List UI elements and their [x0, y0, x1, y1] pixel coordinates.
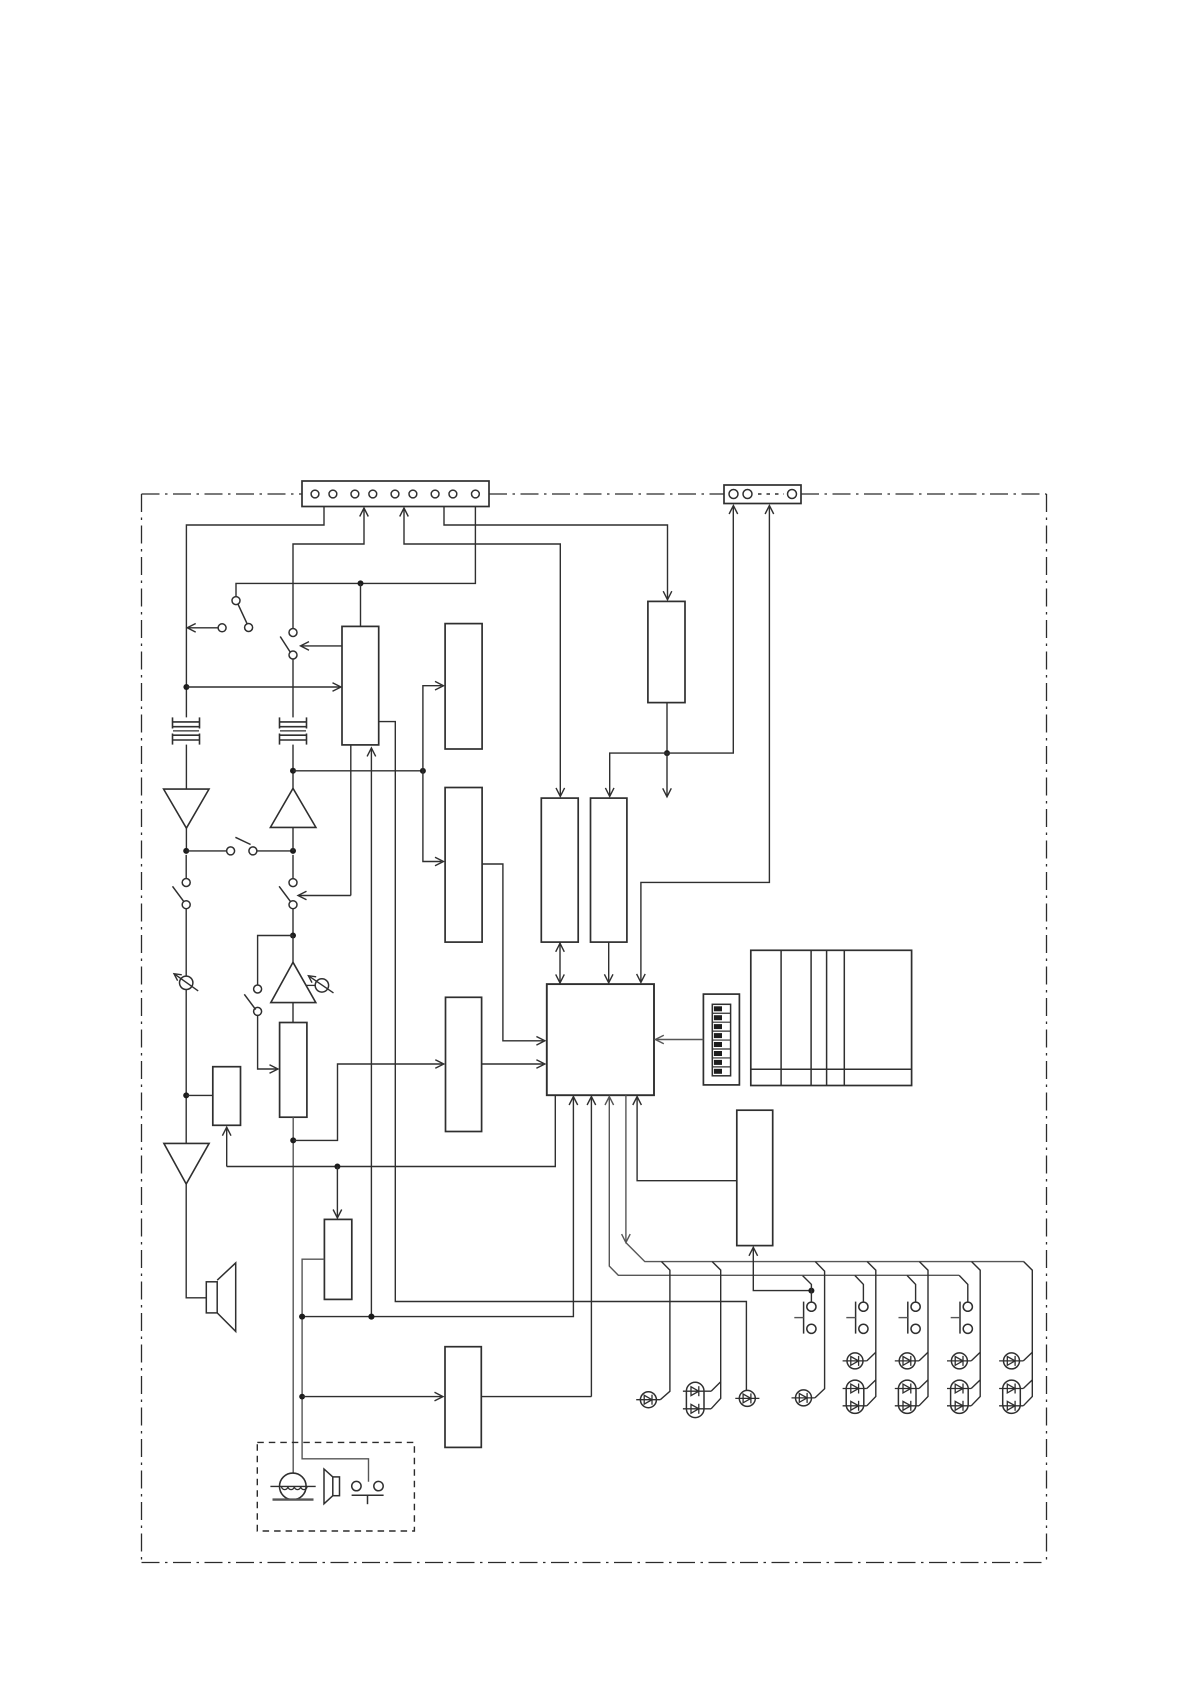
block A: [445, 624, 482, 749]
switch S1: [187, 597, 252, 633]
wire node to block M4: [333, 1167, 342, 1219]
bus lower: [605, 1097, 959, 1276]
motor M: [270, 1473, 315, 1500]
bus upper: [622, 1095, 1024, 1261]
microprocessor U1: [547, 984, 654, 1095]
wire A2 to node B: [292, 827, 294, 851]
wire bus to block K1: [367, 748, 376, 1320]
gain control VR2: [306, 976, 333, 993]
block M2: [280, 1023, 307, 1118]
switch S4: [173, 855, 191, 909]
block M3: [445, 1347, 481, 1448]
wire block R to U1: [633, 1097, 737, 1181]
block D: [591, 798, 627, 942]
wire node to blocks A/B: [293, 768, 426, 774]
wire to block B input: [423, 771, 444, 866]
push switch PB5: [352, 1481, 384, 1504]
LED D1: [636, 1392, 660, 1408]
DIP switch SW1: [703, 994, 739, 1085]
block B: [445, 788, 482, 943]
keypad unit: [751, 950, 912, 1085]
wire U1 to bus node: [227, 1095, 556, 1169]
wire S2 to transformer T2: [292, 659, 294, 717]
block E: [446, 997, 482, 1131]
transformer T2: [280, 717, 307, 744]
wire bus to switch PB2: [855, 1275, 864, 1302]
wire bus to LED group 4: [1023, 1262, 1032, 1406]
LED D7: [895, 1353, 919, 1369]
LED D3: [735, 1390, 759, 1406]
dual LED D10: [947, 1380, 971, 1413]
enclosure dash-dot frame: [142, 494, 1047, 1563]
attenuator VR1: [174, 909, 198, 1144]
wire block R to switch PB1: [749, 1247, 814, 1293]
push switch PB3: [899, 1302, 921, 1334]
wire node to block E input: [293, 1060, 444, 1141]
wire bus to LED D4: [815, 1262, 825, 1398]
push switch PB2: [846, 1302, 868, 1334]
wire node to block M3: [302, 1392, 443, 1401]
wire node to TB2: [667, 506, 738, 754]
wire DIP SW1 to U1: [655, 1035, 703, 1044]
speaker SP2: [324, 1469, 340, 1504]
wire node to block K1 top: [358, 580, 364, 626]
wire block E to U1: [482, 1060, 545, 1069]
wire S3 to node B: [257, 848, 296, 854]
wire bus to switch PB1: [803, 1276, 812, 1303]
block K1: [342, 626, 379, 745]
wire TB1 pin9 to switch S1: [236, 507, 475, 597]
amplifier A2: [270, 788, 316, 827]
wire stub arrow down: [663, 753, 672, 797]
handset unit dashed box: [257, 1442, 414, 1531]
wire A4 to block M2: [292, 1003, 294, 1023]
wire bus to LED D1: [660, 1262, 670, 1400]
dual LED D2: [683, 1382, 711, 1417]
wire node to switch S6: [258, 936, 293, 986]
wire A3 to speaker SP1: [186, 1184, 206, 1298]
wire S5 to amp A4: [290, 909, 296, 963]
wire bus to switch PB3: [907, 1275, 916, 1302]
wire block K1 to LED D3: [379, 722, 747, 1391]
LED D11: [999, 1353, 1023, 1369]
terminal strip TB1: [302, 481, 489, 507]
terminal strip TB2: [724, 485, 801, 504]
wire block M2 to motor: [290, 1117, 296, 1473]
block C: [541, 798, 578, 942]
amplifier A4: [271, 962, 316, 1002]
wire block M3 to U1 riser: [481, 1396, 591, 1398]
wire node to block M1: [183, 1092, 213, 1098]
wire bus to block M1: [222, 1127, 231, 1166]
LED D4: [792, 1390, 815, 1406]
wire bus to LED group 2: [919, 1262, 928, 1406]
wire to block A input: [423, 681, 444, 771]
wire node A to block K1 input: [183, 683, 341, 692]
dual LED D8: [895, 1380, 919, 1413]
speaker SP1: [206, 1263, 235, 1332]
wire block K1 to switch S5: [298, 745, 351, 900]
wire TB1 pin6 to block C: [400, 508, 565, 796]
LED D5: [843, 1353, 867, 1369]
amplifier A3: [164, 1143, 209, 1184]
wire block D to U1: [604, 942, 613, 983]
wire TB1 pin8 to block TR: [444, 507, 672, 600]
wire U1 to node row: [299, 1097, 578, 1320]
switch S6: [244, 985, 261, 1015]
wire block M4 to switch PB5: [299, 1259, 368, 1482]
block TR: [648, 601, 685, 702]
block R: [737, 1110, 773, 1245]
wire bus to switch PB4: [959, 1275, 968, 1302]
transformer T1: [173, 717, 200, 744]
dual LED D6: [843, 1380, 867, 1413]
wire A1 to switch S3: [183, 828, 226, 854]
wire block TR output node: [664, 703, 670, 757]
wire TB1 pin4 from line amp: [293, 508, 368, 628]
wire block C to U1 bidirectional: [556, 942, 565, 984]
wire bus to LED group 3: [971, 1262, 980, 1406]
LED D9: [947, 1353, 971, 1369]
wire bus to LED group 1: [867, 1262, 876, 1406]
wire T1 to amp A1: [185, 745, 187, 790]
wire block B to U1: [482, 864, 545, 1045]
push switch PB1: [794, 1302, 816, 1334]
amplifier A1: [164, 789, 209, 828]
block M4: [324, 1219, 351, 1299]
wire U1 to block M3: [587, 1097, 596, 1397]
wire T2 to amp A2: [290, 745, 296, 789]
wire bus to LED D2: [711, 1262, 721, 1409]
wire node to block D: [605, 753, 667, 796]
switch S3: [227, 837, 257, 855]
push switch PB4: [951, 1302, 973, 1334]
wire TB2 to U1: [637, 506, 774, 983]
wire S6 to block M2: [258, 1015, 278, 1073]
wire TB1 pin2 to transformer T1: [186, 507, 324, 718]
block M1: [213, 1067, 241, 1126]
switch S2: [280, 629, 297, 660]
switch S5: [279, 855, 297, 909]
dual LED D12: [999, 1380, 1023, 1413]
wire block K1 to switch S2: [301, 642, 343, 651]
